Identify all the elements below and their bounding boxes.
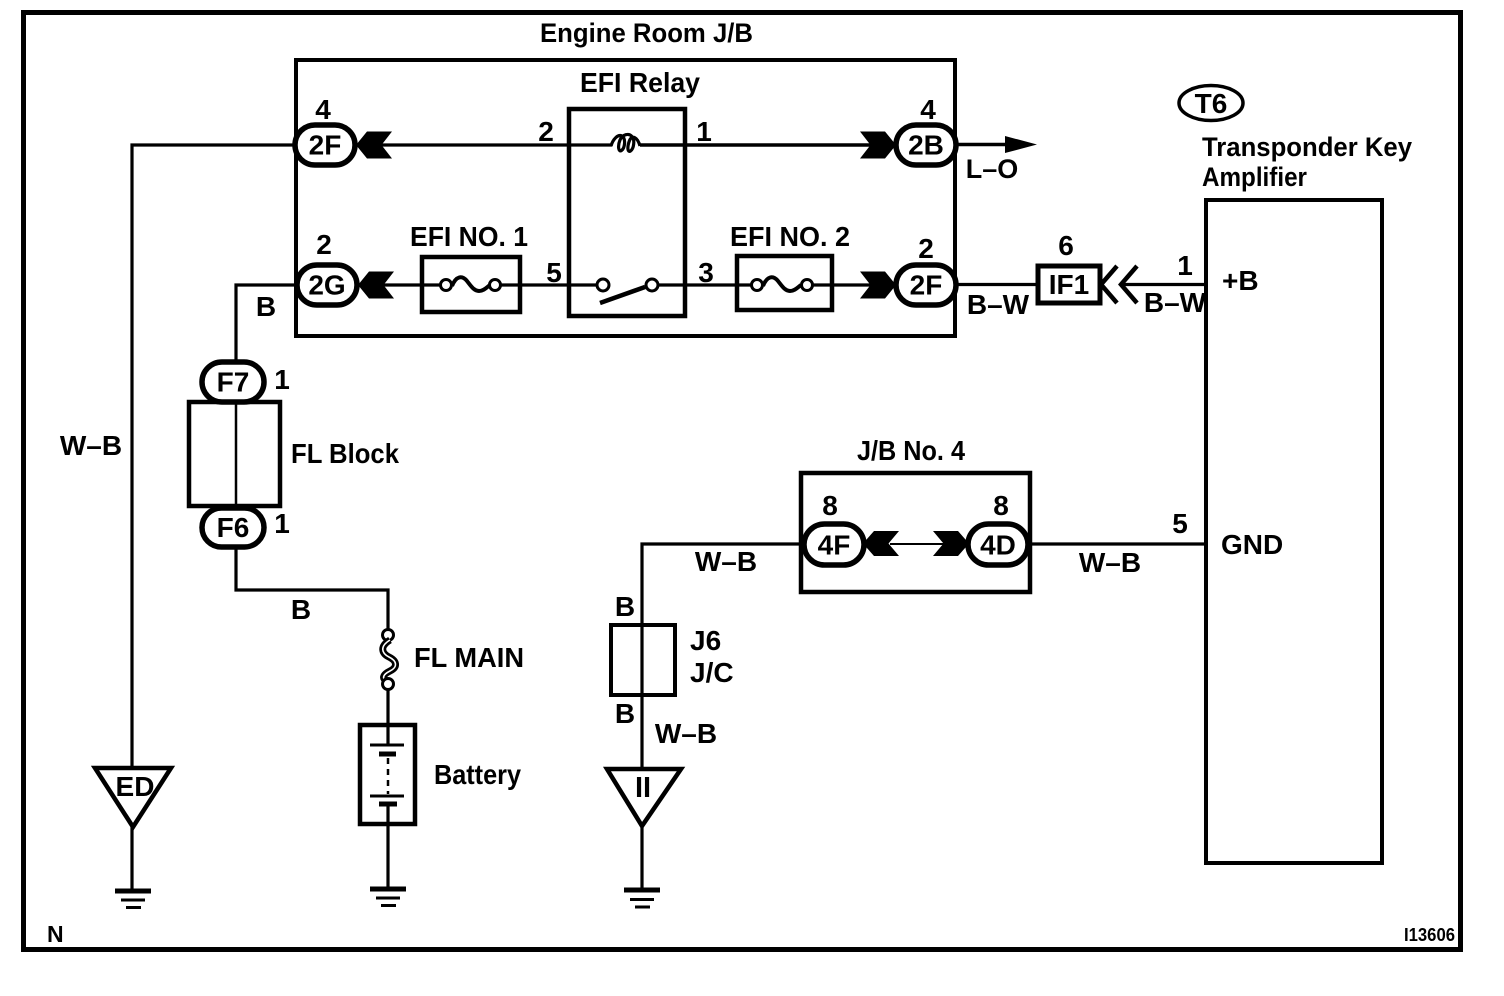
wire top row: relay pin 1 to 2B bbox=[640, 143, 896, 147]
svg-text:II: II bbox=[635, 772, 651, 804]
connector F7 pin 1 bbox=[202, 362, 264, 402]
svg-text:IF1: IF1 bbox=[1049, 269, 1089, 300]
svg-text:B–W: B–W bbox=[1144, 287, 1207, 318]
J/B No. 4 box bbox=[801, 473, 1030, 592]
svg-text:2G: 2G bbox=[308, 270, 345, 301]
svg-text:8: 8 bbox=[822, 490, 838, 521]
relay switch blade bbox=[600, 287, 645, 303]
svg-text:W–B: W–B bbox=[695, 546, 757, 577]
wire B from F6 down to FL MAIN bbox=[236, 547, 388, 635]
ground symbol ED bbox=[115, 891, 151, 908]
connector T6 bbox=[1179, 86, 1243, 121]
connector 2G pin 2 bbox=[297, 265, 357, 305]
svg-text:4D: 4D bbox=[980, 530, 1016, 561]
svg-text:EFI NO. 2: EFI NO. 2 bbox=[730, 221, 850, 252]
svg-text:4: 4 bbox=[315, 94, 331, 125]
wire B-W from IF1 chevron to +B pin 1 bbox=[1121, 283, 1206, 286]
thin link line between arrows bbox=[890, 543, 947, 545]
connector 4F pin 8 bbox=[804, 524, 864, 565]
wire battery to ground bbox=[386, 804, 389, 889]
chevron arrows at IF1 bbox=[1101, 266, 1117, 303]
svg-text:F6: F6 bbox=[217, 512, 250, 543]
svg-text:Battery: Battery bbox=[434, 759, 521, 790]
svg-text:F7: F7 bbox=[217, 367, 250, 398]
svg-text:+B: +B bbox=[1222, 265, 1259, 296]
svg-text:1: 1 bbox=[696, 116, 712, 147]
svg-text:GND: GND bbox=[1221, 529, 1283, 560]
svg-text:1: 1 bbox=[274, 364, 290, 395]
wire L-O out of 2B with arrowhead bbox=[956, 143, 1010, 147]
harness arrow at 2F right bbox=[860, 272, 896, 299]
relay switch contact left bbox=[597, 279, 609, 291]
wire W-B from connector 2F to ground ED bbox=[132, 145, 293, 768]
Transponder Key Amplifier box bbox=[1206, 200, 1382, 863]
svg-text:1: 1 bbox=[1177, 250, 1193, 281]
svg-text:N: N bbox=[47, 921, 64, 947]
connector 2B pin 4 bbox=[896, 125, 956, 165]
connector 2F right pin 2 bbox=[896, 265, 956, 305]
svg-text:L–O: L–O bbox=[966, 154, 1019, 184]
relay coil bbox=[611, 134, 640, 151]
harness arrow at 2B bbox=[860, 132, 896, 159]
connector IF1 pin 6 bbox=[1038, 266, 1100, 303]
ground triangle II bbox=[607, 769, 681, 826]
connector F6 pin 1 bbox=[202, 508, 264, 547]
wire II triangle to ground bbox=[640, 826, 643, 890]
svg-text:5: 5 bbox=[1172, 508, 1188, 539]
svg-text:T6: T6 bbox=[1195, 88, 1228, 119]
svg-text:2F: 2F bbox=[309, 130, 342, 161]
connector 4D pin 8 bbox=[968, 524, 1028, 565]
svg-text:8: 8 bbox=[993, 490, 1009, 521]
ground triangle ED bbox=[95, 768, 171, 827]
harness arrow right at 4D bbox=[933, 531, 969, 556]
wire FL MAIN to battery bbox=[386, 684, 389, 745]
Engine Room J/B box bbox=[296, 60, 955, 336]
fuse EFI NO. 1 bbox=[422, 257, 520, 312]
svg-text:EFI NO. 1: EFI NO. 1 bbox=[410, 221, 528, 252]
svg-text:B: B bbox=[615, 698, 635, 729]
svg-text:1: 1 bbox=[274, 508, 290, 539]
wire top row: 2F to EFI relay coil pin 2 bbox=[356, 143, 612, 146]
harness arrow at 2F bbox=[356, 132, 392, 159]
wire B from 2G down to F7 bbox=[236, 285, 297, 362]
ground symbol battery bbox=[370, 889, 406, 906]
wire bottom row: switch to 2F right bbox=[652, 283, 758, 286]
wire W-B from junction J6 to 4F bbox=[642, 544, 801, 769]
svg-text:EFI Relay: EFI Relay bbox=[580, 67, 701, 98]
svg-text:I13606: I13606 bbox=[1404, 925, 1455, 945]
svg-text:3: 3 bbox=[698, 257, 714, 288]
svg-text:Transponder Key: Transponder Key bbox=[1202, 132, 1412, 162]
svg-text:6: 6 bbox=[1058, 230, 1074, 261]
relay switch contact right bbox=[646, 279, 658, 291]
svg-text:J6: J6 bbox=[690, 625, 721, 656]
svg-text:B: B bbox=[615, 591, 635, 622]
connector 2F pin 4 bbox=[295, 125, 355, 165]
fuse EFI NO. 2 bbox=[737, 256, 832, 310]
junction J6 J/C bbox=[611, 625, 675, 695]
svg-text:Amplifier: Amplifier bbox=[1202, 162, 1307, 192]
svg-text:W–B: W–B bbox=[60, 430, 122, 461]
wire bottom row: 2G to switch bbox=[358, 283, 447, 286]
harness arrow left at 4F bbox=[863, 531, 899, 556]
svg-text:2B: 2B bbox=[908, 130, 944, 161]
svg-text:W–B: W–B bbox=[1079, 547, 1141, 578]
svg-text:B: B bbox=[291, 594, 311, 625]
svg-text:FL Block: FL Block bbox=[291, 438, 399, 469]
wire ED triangle to ground bbox=[130, 827, 133, 891]
svg-text:4F: 4F bbox=[818, 530, 851, 561]
svg-text:2: 2 bbox=[316, 229, 332, 260]
svg-text:J/C: J/C bbox=[690, 657, 734, 688]
svg-text:B: B bbox=[256, 291, 276, 322]
svg-text:W–B: W–B bbox=[655, 718, 717, 749]
ground symbol II bbox=[624, 890, 660, 907]
battery bbox=[360, 725, 415, 824]
svg-text:Engine Room J/B: Engine Room J/B bbox=[540, 18, 753, 48]
fusible link FL MAIN bbox=[383, 630, 394, 641]
wire W-B from 4D to GND pin 5 bbox=[1031, 542, 1206, 545]
harness arrow at 2G bbox=[358, 272, 394, 299]
svg-text:4: 4 bbox=[920, 94, 936, 125]
EFI Relay U1 bbox=[569, 109, 685, 316]
svg-text:2: 2 bbox=[538, 116, 554, 147]
svg-text:5: 5 bbox=[546, 257, 562, 288]
svg-text:B–W: B–W bbox=[967, 289, 1030, 320]
svg-text:2: 2 bbox=[918, 233, 934, 264]
svg-text:FL MAIN: FL MAIN bbox=[414, 642, 524, 673]
svg-text:ED: ED bbox=[116, 771, 155, 802]
svg-text:2F: 2F bbox=[910, 270, 943, 301]
svg-text:J/B No. 4: J/B No. 4 bbox=[857, 435, 965, 466]
wire B-W from 2F to IF1 bbox=[956, 283, 1038, 286]
FL Block bbox=[189, 402, 280, 506]
